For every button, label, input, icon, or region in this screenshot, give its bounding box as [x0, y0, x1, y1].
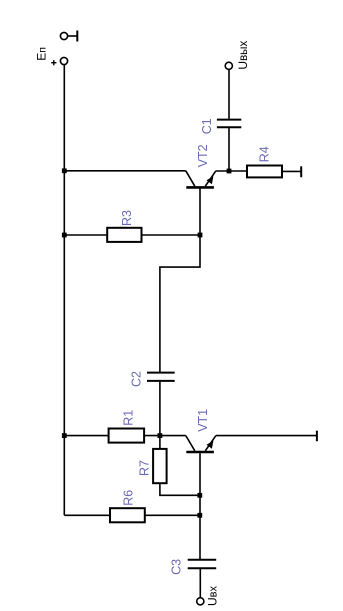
- junction: rail / R3: [62, 233, 67, 238]
- transistor VT2: [186, 171, 216, 188]
- wire: C3 to Uвх terminal: [199, 569, 201, 598]
- terminal Eп (+ supply): [51, 57, 67, 65]
- wire: R3 to VT2 base node: [142, 234, 201, 236]
- svg-text:R6: R6: [122, 490, 136, 506]
- terminal bar (VT1 emitter): [316, 431, 318, 442]
- svg-text:Uвх: Uвх: [206, 585, 220, 606]
- wire: VT1 emitter to terminal bar: [216, 435, 317, 437]
- junction: rail / R1: [62, 433, 67, 438]
- svg-text:VT1: VT1: [196, 409, 210, 432]
- wire: R4 to terminal bar: [282, 170, 301, 172]
- terminal Uвх: [197, 598, 204, 605]
- terminal X1 (common, top-left): [60, 31, 77, 42]
- resistor R1: [109, 429, 145, 443]
- wire: VT2 collector row: [64, 170, 186, 172]
- svg-text:C1: C1: [200, 118, 214, 134]
- wire: R6 to VT1 base line: [145, 514, 200, 516]
- svg-text:VT2: VT2: [196, 144, 210, 167]
- wire: C2 bottom to R1 node: [159, 382, 161, 436]
- wire: R1 row left: [64, 435, 108, 437]
- terminal bar (R4 right): [300, 166, 302, 177]
- wire: C1 to Uвых terminal: [228, 70, 230, 119]
- wire: R3 row left: [64, 234, 107, 236]
- junction: rail / VT2 collector: [62, 168, 67, 173]
- svg-text:C2: C2: [130, 371, 144, 387]
- svg-text:C3: C3: [170, 559, 184, 575]
- capacitor C3: [188, 560, 217, 568]
- svg-text:R3: R3: [120, 210, 134, 226]
- resistor R4: [247, 166, 282, 178]
- wire: R1 to VT1 collector: [144, 435, 186, 437]
- svg-text:R7: R7: [138, 460, 152, 476]
- terminal Uвых: [225, 62, 232, 69]
- transistor VT1: [186, 436, 216, 452]
- wire: R7 bottom to VT1 base line: [160, 483, 200, 495]
- junction: R6 / VT1 base: [197, 513, 202, 518]
- capacitor C2: [147, 373, 175, 381]
- wire: VT2 emitter to node: [216, 170, 247, 172]
- resistor R6: [110, 508, 145, 522]
- wire: VT1 base line down: [199, 453, 201, 559]
- junction: R7 / VT1 base: [197, 493, 202, 498]
- wire: node to R7 top: [159, 436, 161, 449]
- svg-text:Uвых: Uвых: [236, 41, 250, 70]
- junction: emitter / C1 / R4: [227, 169, 232, 174]
- svg-text:R1: R1: [121, 410, 135, 426]
- wire: C1 branch up: [228, 128, 230, 171]
- wire: left supply rail: [63, 65, 65, 516]
- junction: R3 / VT2 base: [198, 233, 203, 238]
- resistor R3: [107, 228, 141, 242]
- resistor R7: [153, 449, 167, 483]
- svg-text:Eп: Eп: [34, 47, 48, 61]
- svg-text:R4: R4: [258, 146, 272, 162]
- junction: R1 / C2 / R7: [158, 433, 163, 438]
- capacitor C1: [217, 120, 241, 128]
- wire: VT2 base down, corner to C2: [160, 188, 200, 372]
- wire: R6 row: [64, 514, 110, 516]
